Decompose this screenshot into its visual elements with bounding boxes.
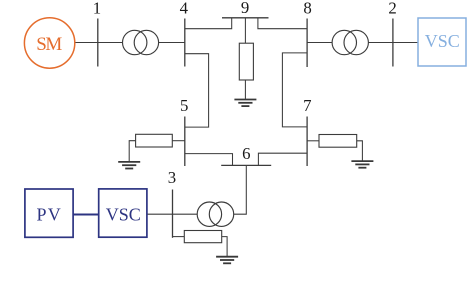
svg-text:9: 9: [241, 0, 249, 17]
svg-text:VSC: VSC: [106, 205, 141, 225]
svg-text:4: 4: [180, 0, 189, 17]
svg-text:5: 5: [180, 96, 188, 115]
svg-text:VSC: VSC: [425, 31, 460, 51]
svg-text:2: 2: [388, 0, 396, 17]
svg-text:PV: PV: [36, 205, 60, 225]
svg-text:1: 1: [93, 0, 101, 17]
svg-text:3: 3: [168, 168, 176, 187]
svg-text:8: 8: [303, 0, 311, 17]
svg-text:SM: SM: [36, 34, 62, 55]
svg-text:7: 7: [303, 96, 311, 115]
svg-text:6: 6: [242, 144, 250, 163]
